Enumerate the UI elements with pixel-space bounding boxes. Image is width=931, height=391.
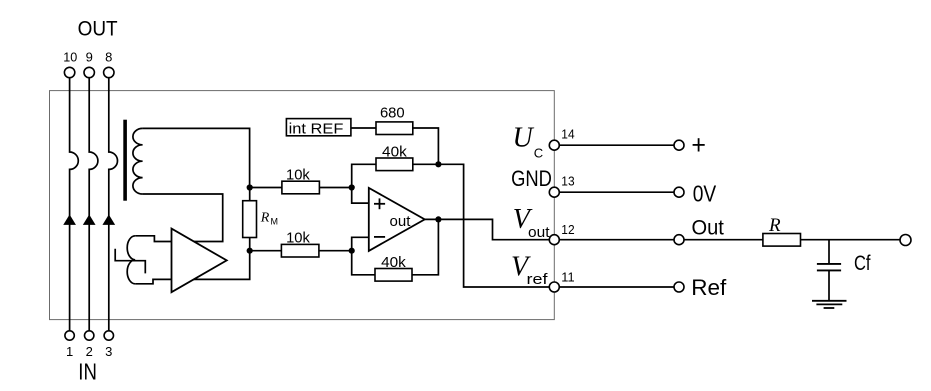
wire: secondary bottom to compensation coil top (passes under amplifier) bbox=[135, 194, 223, 242]
amplifier A1 (push-pull driver) bbox=[172, 229, 227, 293]
terminal 0V bbox=[674, 187, 684, 197]
terminal Out bbox=[674, 235, 684, 245]
label Ref bbox=[691, 275, 727, 300]
label 10k lower bbox=[286, 230, 310, 247]
wire: pin 13 to 0V terminal bbox=[559, 191, 674, 193]
pin 11 terminal bbox=[549, 282, 559, 292]
resistor RM bbox=[243, 201, 257, 238]
pin 14 terminal bbox=[549, 140, 559, 150]
node: - input junction bbox=[349, 248, 355, 254]
svg-text:M: M bbox=[271, 217, 279, 227]
pin number 13 bbox=[561, 174, 574, 189]
wire: R1 to op-amp + node bbox=[319, 187, 351, 189]
label Vout bbox=[513, 204, 551, 241]
wire: RM top stub bbox=[249, 188, 251, 201]
svg-text:1: 1 bbox=[66, 344, 73, 359]
svg-text:out: out bbox=[390, 213, 412, 230]
pin number 9 bbox=[86, 49, 93, 64]
wire: int REF to R3 bbox=[351, 127, 376, 129]
label UC bbox=[513, 123, 544, 161]
pin terminal 10 bbox=[64, 67, 74, 77]
pin number 8 bbox=[105, 49, 112, 64]
wire: R4 right to ref node and Vref line bbox=[413, 164, 550, 287]
pin terminal 2 bbox=[85, 331, 94, 340]
label Vref bbox=[511, 251, 548, 288]
wire: secondary top to RM node bbox=[143, 128, 250, 187]
wire: R5 right to output node bbox=[412, 219, 438, 274]
label GND bbox=[511, 166, 552, 191]
transformer core bbox=[123, 120, 127, 201]
pin number 1 bbox=[66, 344, 73, 359]
resistor R2 10k (lower) bbox=[281, 244, 319, 257]
pin number 12 bbox=[561, 222, 574, 237]
wire: R3 to ref node bbox=[413, 128, 439, 164]
svg-text:10: 10 bbox=[63, 49, 77, 64]
label + bbox=[693, 138, 705, 151]
svg-text:680: 680 bbox=[380, 105, 405, 122]
svg-text:9: 9 bbox=[86, 49, 93, 64]
svg-text:0V: 0V bbox=[693, 180, 717, 206]
svg-text:R: R bbox=[260, 210, 270, 225]
pin 12 terminal bbox=[549, 235, 559, 245]
primary conductor 3 (pin8-pin3) with half-turn loop bbox=[109, 78, 118, 331]
label 40k upper bbox=[382, 143, 407, 160]
pin terminal 1 bbox=[65, 331, 74, 340]
svg-text:int REF: int REF bbox=[289, 121, 344, 138]
pin 13 terminal bbox=[549, 187, 559, 197]
capacitor Cf bbox=[817, 264, 841, 271]
primary conductor 1 (pin10-pin1) with half-turn loop bbox=[70, 78, 79, 331]
wire: op-amp - input chain bbox=[352, 237, 375, 274]
pin terminal 8 bbox=[104, 67, 114, 77]
resistor R3 680 bbox=[376, 122, 413, 135]
wire: op-amp output to pin 12 bbox=[425, 219, 550, 239]
wire: compensation coil bottom to RM bottom node (passes under amplifier) bbox=[135, 251, 250, 284]
output terminal circle bbox=[900, 235, 911, 246]
wire: pin 14 to + terminal bbox=[559, 144, 674, 146]
pin terminal 9 bbox=[84, 67, 94, 77]
svg-text:C: C bbox=[534, 145, 543, 160]
wire: pin 12 to Out terminal bbox=[559, 239, 674, 241]
wire: Cf to ground bbox=[828, 270, 830, 300]
svg-text:40k: 40k bbox=[382, 143, 407, 160]
node: output junction bbox=[435, 216, 441, 222]
svg-text:10k: 10k bbox=[286, 167, 310, 184]
wire: RM top node to R1 bbox=[250, 187, 282, 189]
svg-text:10k: 10k bbox=[286, 230, 310, 247]
wire: RM bottom node to R2 bbox=[250, 250, 282, 252]
current direction arrow on conductor 2 bbox=[83, 215, 96, 225]
node: ref divider junction bbox=[435, 161, 441, 167]
module outline box bbox=[50, 91, 555, 320]
wire: R2 to op-amp - node bbox=[319, 250, 352, 252]
pin number 10 bbox=[63, 49, 77, 64]
pin number 2 bbox=[86, 344, 93, 359]
svg-text:11: 11 bbox=[561, 270, 574, 285]
label 680 bbox=[380, 105, 405, 122]
pin terminal 3 bbox=[104, 331, 113, 340]
svg-text:Out: Out bbox=[692, 217, 725, 240]
current direction arrow on conductor 3 bbox=[102, 215, 115, 225]
resistor R4 40k (upper) bbox=[376, 158, 413, 171]
label 40k lower bbox=[381, 254, 406, 271]
label Cf bbox=[854, 252, 871, 275]
current direction arrow on conductor 1 bbox=[63, 215, 76, 225]
label RM bbox=[260, 210, 278, 226]
primary conductor 2 (pin9-pin2) with half-turn loop bbox=[89, 78, 98, 331]
label 10k upper bbox=[286, 167, 310, 184]
resistor R5 40k (lower feedback) bbox=[375, 269, 412, 282]
wire: Out terminal to R bbox=[684, 239, 763, 241]
svg-text:2: 2 bbox=[86, 344, 93, 359]
wire: RM bottom stub bbox=[249, 238, 251, 251]
resistor R (external) bbox=[763, 234, 801, 247]
label 0V bbox=[693, 180, 717, 206]
svg-text:14: 14 bbox=[561, 127, 574, 142]
svg-text:OUT: OUT bbox=[78, 18, 118, 41]
pin number 3 bbox=[105, 344, 112, 359]
resistor R1 10k (upper) bbox=[282, 181, 320, 194]
svg-text:40k: 40k bbox=[381, 254, 406, 271]
svg-text:U: U bbox=[513, 123, 535, 154]
svg-text:8: 8 bbox=[105, 49, 112, 64]
node: RM bottom junction bbox=[247, 248, 253, 254]
node: RM top junction bbox=[247, 184, 253, 190]
svg-text:Ref: Ref bbox=[691, 275, 727, 300]
svg-text:GND: GND bbox=[511, 166, 552, 191]
svg-text:Cf: Cf bbox=[854, 252, 871, 275]
label IN bbox=[78, 358, 97, 384]
secondary winding L1 bbox=[133, 128, 143, 194]
wire: op-amp + input chain bbox=[352, 164, 376, 203]
pin number 14 bbox=[561, 127, 574, 142]
int REF block bbox=[286, 119, 351, 138]
ground bbox=[812, 301, 847, 308]
terminal Ref bbox=[674, 282, 684, 292]
wire: junction to capacitor Cf bbox=[828, 240, 830, 264]
svg-text:13: 13 bbox=[561, 174, 574, 189]
terminal + bbox=[674, 140, 684, 150]
svg-text:12: 12 bbox=[561, 222, 574, 237]
svg-text:R: R bbox=[768, 215, 781, 236]
svg-text:3: 3 bbox=[105, 344, 112, 359]
label Out bbox=[692, 217, 725, 240]
label R bbox=[768, 215, 781, 236]
svg-text:IN: IN bbox=[78, 358, 97, 384]
compensation coil L2 bbox=[127, 236, 135, 284]
op-amp U1 bbox=[369, 188, 425, 251]
wire: R to output terminal bbox=[801, 239, 901, 241]
hall element lead bbox=[115, 249, 145, 274]
node: + input junction bbox=[349, 184, 355, 190]
pin number 11 bbox=[561, 270, 574, 285]
wire: pin 11 to Ref terminal bbox=[559, 286, 674, 288]
label OUT bbox=[78, 18, 118, 41]
svg-text:out: out bbox=[528, 224, 550, 241]
svg-text:ref: ref bbox=[527, 271, 549, 288]
